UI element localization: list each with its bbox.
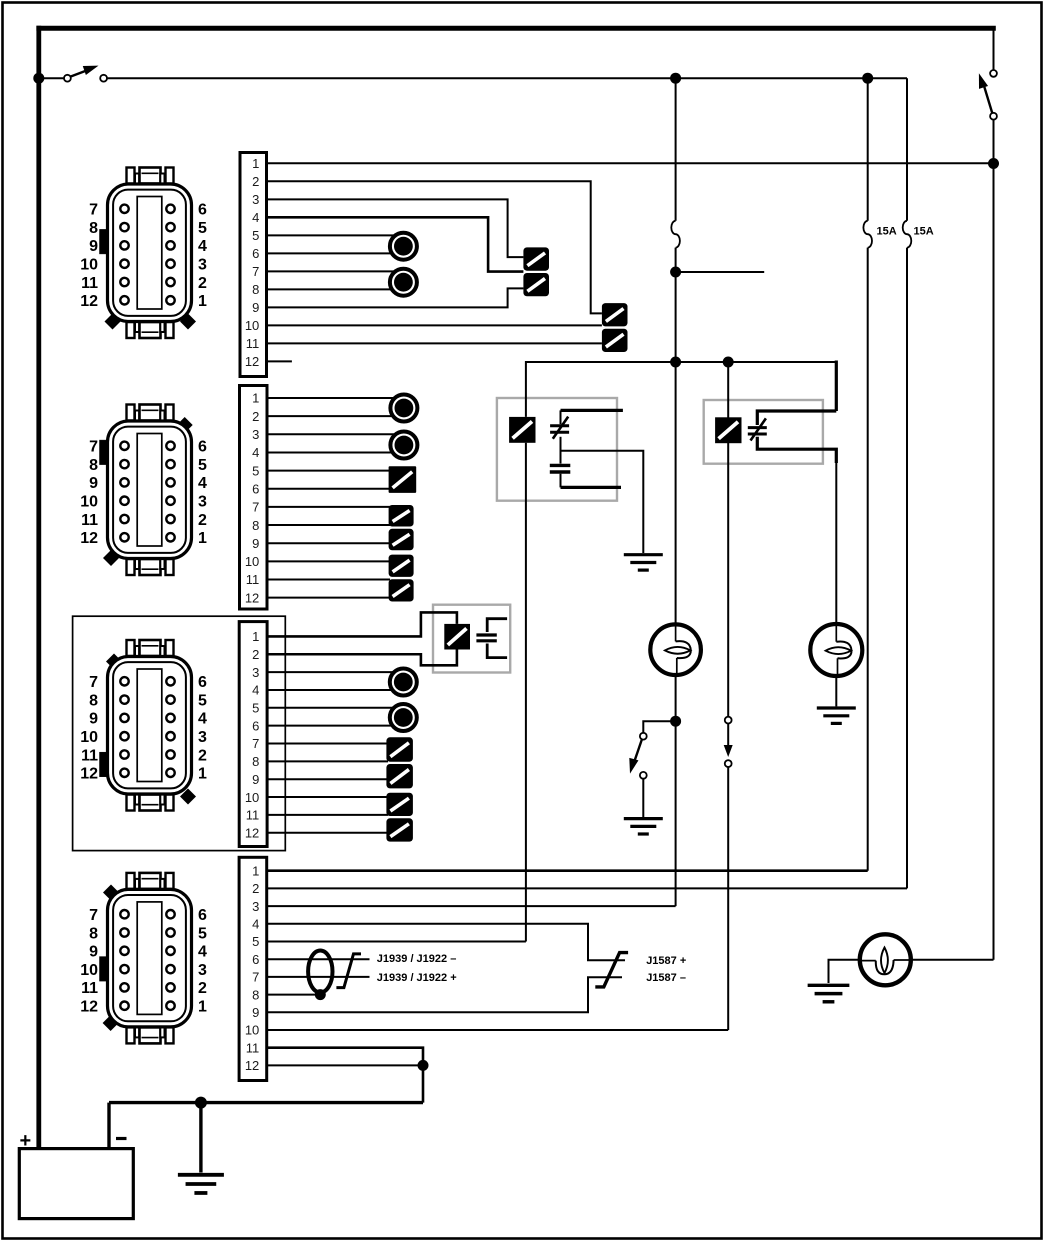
svg-text:5: 5 <box>252 228 259 243</box>
svg-text:8: 8 <box>89 457 98 474</box>
svg-text:4: 4 <box>252 917 259 932</box>
svg-text:1: 1 <box>252 863 259 878</box>
svg-text:3: 3 <box>198 729 207 746</box>
svg-text:8: 8 <box>252 754 259 769</box>
svg-text:10: 10 <box>80 729 98 746</box>
svg-text:10: 10 <box>245 1023 259 1038</box>
svg-text:15A: 15A <box>914 226 934 238</box>
svg-text:6: 6 <box>198 439 207 456</box>
svg-text:1: 1 <box>252 391 259 406</box>
svg-text:J1587 –: J1587 – <box>646 972 686 984</box>
svg-text:6: 6 <box>252 246 259 261</box>
svg-text:7: 7 <box>252 970 259 985</box>
svg-text:6: 6 <box>252 481 259 496</box>
svg-text:5: 5 <box>198 925 207 942</box>
svg-text:4: 4 <box>198 944 207 961</box>
svg-text:8: 8 <box>252 282 259 297</box>
svg-text:11: 11 <box>81 980 98 997</box>
svg-text:7: 7 <box>89 674 98 691</box>
svg-text:4: 4 <box>252 445 259 460</box>
svg-text:2: 2 <box>252 881 259 896</box>
svg-text:2: 2 <box>252 409 259 424</box>
svg-text:8: 8 <box>252 518 259 533</box>
svg-text:J1939 / J1922 +: J1939 / J1922 + <box>377 972 457 984</box>
svg-text:5: 5 <box>252 463 259 478</box>
svg-text:9: 9 <box>89 475 98 492</box>
svg-text:1: 1 <box>198 530 207 547</box>
svg-text:4: 4 <box>252 683 259 698</box>
svg-text:1: 1 <box>252 629 259 644</box>
svg-text:11: 11 <box>81 747 98 764</box>
svg-text:3: 3 <box>198 962 207 979</box>
svg-text:15A: 15A <box>877 226 897 238</box>
svg-text:6: 6 <box>252 718 259 733</box>
svg-text:3: 3 <box>252 427 259 442</box>
svg-text:7: 7 <box>252 500 259 515</box>
svg-text:+: + <box>20 1130 32 1152</box>
svg-text:10: 10 <box>245 318 259 333</box>
svg-text:12: 12 <box>80 999 98 1016</box>
svg-text:7: 7 <box>252 736 259 751</box>
svg-text:12: 12 <box>245 354 259 369</box>
svg-text:J1587 +: J1587 + <box>646 955 686 967</box>
svg-text:10: 10 <box>245 790 259 805</box>
svg-text:3: 3 <box>252 665 259 680</box>
svg-text:4: 4 <box>198 238 207 255</box>
svg-text:3: 3 <box>198 494 207 511</box>
svg-text:2: 2 <box>198 275 207 292</box>
svg-text:3: 3 <box>252 192 259 207</box>
svg-text:5: 5 <box>198 692 207 709</box>
svg-text:7: 7 <box>252 264 259 279</box>
svg-text:10: 10 <box>80 962 98 979</box>
svg-text:2: 2 <box>198 747 207 764</box>
svg-text:6: 6 <box>198 907 207 924</box>
svg-text:6: 6 <box>198 674 207 691</box>
svg-text:4: 4 <box>252 210 259 225</box>
svg-text:3: 3 <box>252 899 259 914</box>
svg-text:12: 12 <box>245 825 259 840</box>
svg-text:J1939 / J1922 –: J1939 / J1922 – <box>377 953 457 965</box>
svg-text:6: 6 <box>252 952 259 967</box>
svg-text:1: 1 <box>198 766 207 783</box>
svg-text:6: 6 <box>198 202 207 219</box>
svg-text:2: 2 <box>252 174 259 189</box>
svg-text:2: 2 <box>198 512 207 529</box>
svg-text:10: 10 <box>245 554 259 569</box>
svg-text:12: 12 <box>245 1058 259 1073</box>
svg-text:9: 9 <box>252 772 259 787</box>
svg-text:10: 10 <box>80 257 98 274</box>
svg-text:1: 1 <box>198 999 207 1016</box>
svg-text:9: 9 <box>252 300 259 315</box>
svg-text:8: 8 <box>89 220 98 237</box>
svg-text:5: 5 <box>252 934 259 949</box>
svg-text:9: 9 <box>252 1005 259 1020</box>
svg-text:2: 2 <box>252 647 259 662</box>
svg-text:7: 7 <box>89 439 98 456</box>
svg-text:7: 7 <box>89 202 98 219</box>
svg-text:11: 11 <box>246 336 260 351</box>
svg-text:11: 11 <box>246 808 260 823</box>
svg-text:9: 9 <box>89 238 98 255</box>
svg-text:8: 8 <box>89 692 98 709</box>
svg-text:7: 7 <box>89 907 98 924</box>
svg-text:3: 3 <box>198 257 207 274</box>
svg-text:9: 9 <box>252 536 259 551</box>
svg-text:11: 11 <box>81 512 98 529</box>
svg-text:12: 12 <box>80 293 98 310</box>
svg-text:10: 10 <box>80 494 98 511</box>
svg-text:11: 11 <box>246 572 260 587</box>
svg-text:11: 11 <box>246 1040 260 1055</box>
svg-text:12: 12 <box>245 590 259 605</box>
svg-text:1: 1 <box>252 156 259 171</box>
svg-text:4: 4 <box>198 475 207 492</box>
svg-text:8: 8 <box>89 925 98 942</box>
svg-text:9: 9 <box>89 944 98 961</box>
svg-text:9: 9 <box>89 711 98 728</box>
svg-text:2: 2 <box>198 980 207 997</box>
svg-text:4: 4 <box>198 711 207 728</box>
svg-text:12: 12 <box>80 766 98 783</box>
svg-text:12: 12 <box>80 530 98 547</box>
svg-text:5: 5 <box>198 220 207 237</box>
svg-text:1: 1 <box>198 293 207 310</box>
svg-text:5: 5 <box>252 701 259 716</box>
svg-text:8: 8 <box>252 987 259 1002</box>
svg-text:5: 5 <box>198 457 207 474</box>
svg-text:11: 11 <box>81 275 98 292</box>
